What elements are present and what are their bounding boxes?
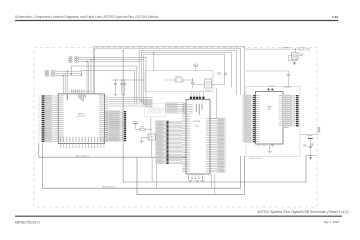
U200 left pins <box>182 104 193 172</box>
svg-text:FLASH / SRAM: FLASH / SRAM <box>249 157 262 160</box>
svg-text:7-93: 7-93 <box>332 15 338 19</box>
U200 bottom pins <box>188 174 203 179</box>
U300 right pins and net boxes <box>279 95 299 126</box>
wires U200 to serial bus <box>211 175 215 195</box>
resistor R702 <box>136 127 151 131</box>
top bus wire 1 <box>94 46 245 95</box>
riser to U200 right top pin <box>210 88 217 119</box>
capacitor C705 <box>113 79 117 96</box>
U700 right pin stubs and pin names <box>99 96 108 142</box>
ground symbol <box>140 141 144 143</box>
net label DATA(0:7) <box>102 185 115 188</box>
footer part number 68P81076C25-O <box>15 220 40 224</box>
U200 right pins and net boxes <box>206 118 225 173</box>
connector P1 pin field <box>38 95 54 142</box>
page header title <box>15 15 159 19</box>
risers from U700 top to group2 <box>63 71 67 94</box>
wire: address bus loop left <box>39 143 186 157</box>
riser into oscillator module <box>153 52 155 70</box>
wire: serial bus loop <box>123 50 311 182</box>
svg-text:ADD_BUS(0:15): ADD_BUS(0:15) <box>76 154 90 157</box>
net stub arrow 1V8 <box>218 72 227 75</box>
footer caption <box>256 210 348 214</box>
connector J200 pin column <box>124 111 126 141</box>
junction node <box>150 129 151 130</box>
net label ADD(0:15) <box>76 154 90 157</box>
net label boxes into U200 <box>166 103 186 113</box>
svg-text:DSP56303: DSP56303 <box>193 121 200 123</box>
U200 top pins with pads <box>190 91 205 99</box>
U300 bottom pins <box>257 144 273 146</box>
off-sheet wire and reference <box>300 127 320 135</box>
off-page connector group 2 <box>45 70 82 76</box>
U200 bottom grounds <box>188 180 204 182</box>
wire J701 to bus <box>152 157 156 188</box>
wire to bypass caps <box>112 79 146 81</box>
power rail for oscillator <box>193 64 198 71</box>
svg-text:MCU U700: MCU U700 <box>77 116 85 118</box>
footer rule <box>15 216 342 217</box>
U700 bottom pin stubs with labels <box>60 137 105 148</box>
svg-text:DATA_BUS(0:7): DATA_BUS(0:7) <box>102 185 115 188</box>
crystal Y301 <box>292 49 304 59</box>
svg-text:U200: U200 <box>195 126 199 128</box>
svg-text:U300: U300 <box>267 109 271 111</box>
bus ramp <box>145 103 165 116</box>
wire module to riser <box>212 84 225 86</box>
IC U700 Patriot MCU body <box>58 94 104 144</box>
capacitor C706 <box>120 79 123 93</box>
supply tap right of U300 <box>303 135 317 160</box>
capacitor C301 <box>287 71 291 86</box>
wire: control bus loop <box>137 156 245 194</box>
U700 left pin stubs and pin names <box>55 96 64 142</box>
riser bundle <box>139 50 152 107</box>
U700 extra top pin stubs with pin numbers <box>67 89 93 94</box>
sheet dashed border <box>34 47 317 207</box>
crystal load loop <box>289 55 297 62</box>
filter FL201 <box>165 76 193 82</box>
top bus wire 5 <box>144 55 225 85</box>
net label boxes U700 right <box>105 111 125 141</box>
bus wires U700 to U200 <box>108 98 152 106</box>
svg-text:Schematics, Component Location: Schematics, Component Location Diagrams,… <box>15 15 159 19</box>
bus junction dot <box>153 52 154 53</box>
top bus wire 2 <box>95 48 241 95</box>
fuse F301 <box>296 48 310 51</box>
page number 7-93 <box>332 15 338 19</box>
svg-text:ASTRO Spectra Plus Digital/USB: ASTRO Spectra Plus Digital/USB Schematic… <box>256 210 348 214</box>
svg-text:July 1, 2002: July 1, 2002 <box>323 220 339 224</box>
oscillator module outline <box>145 71 213 92</box>
wire: data bus loop left <box>42 143 240 188</box>
wire to shield cap <box>246 70 289 72</box>
U300 bottom ground <box>268 146 272 153</box>
off-page connector group 1 <box>68 56 146 62</box>
IC U200 DSP body <box>186 99 210 174</box>
IC U300 SRAM body <box>256 92 284 145</box>
wire Q701 to ground <box>142 138 148 142</box>
crystal oscillator Y201 <box>193 79 212 91</box>
supply wire VCC3 <box>245 47 296 49</box>
svg-text:68P81076C25-O: 68P81076C25-O <box>15 220 40 224</box>
risers from U700 top to bus <box>72 60 137 104</box>
transistor Q701 <box>148 134 161 140</box>
ground arrow <box>293 63 296 66</box>
U700 inside top pin-name texts <box>67 94 86 101</box>
shield outline around U300 <box>246 86 300 160</box>
top bus wire 4 <box>141 52 231 87</box>
top bus wire 3 <box>139 50 236 95</box>
U300 top pins <box>268 86 291 128</box>
capacitor C201 <box>191 78 194 89</box>
header rule <box>15 20 338 21</box>
power rail V2 symbol <box>133 121 138 129</box>
connector J701 pin column <box>156 121 182 164</box>
capacitor C707 <box>121 79 126 96</box>
wire from bus to Q701 <box>150 117 152 134</box>
junction dots group1 <box>63 59 92 76</box>
wire Q701 down to bus <box>151 140 153 157</box>
footer date July 1, 2002 <box>323 220 339 224</box>
U300 left pins and net boxes <box>243 95 260 142</box>
